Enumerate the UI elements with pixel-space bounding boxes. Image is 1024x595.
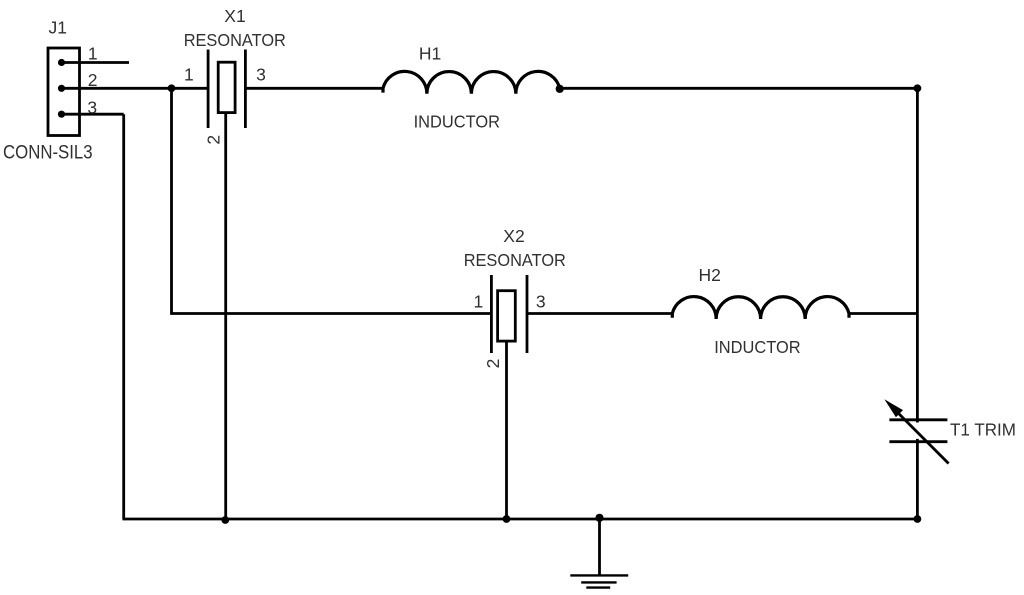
wire X1 pin3 to H1 — [245, 87, 383, 90]
resonator X2 left plate — [490, 275, 493, 353]
svg-text:2: 2 — [203, 135, 223, 145]
svg-text:3: 3 — [256, 65, 266, 85]
svg-text:1: 1 — [184, 65, 194, 85]
wire right trunk upper — [916, 87, 919, 422]
ground bar 3 — [586, 586, 610, 588]
junction node ground on bus — [595, 514, 603, 522]
svg-text:INDUCTOR: INDUCTOR — [714, 337, 800, 357]
inductor H2 — [672, 297, 849, 319]
svg-text:J1: J1 — [49, 17, 67, 37]
svg-text:3: 3 — [536, 291, 546, 311]
junction node X2 pin2 on bus — [503, 515, 511, 523]
svg-text:INDUCTOR: INDUCTOR — [414, 111, 500, 131]
resonator X2 right plate — [526, 275, 529, 353]
ground bar 1 — [570, 574, 628, 576]
wire H2 to right trunk — [849, 312, 917, 315]
svg-text:CONN-SIL3: CONN-SIL3 — [3, 142, 93, 163]
wire X2 pin2 drop — [505, 341, 508, 519]
svg-text:RESONATOR: RESONATOR — [184, 30, 286, 50]
trimmer capacitor T1 bottom plate — [889, 440, 947, 443]
svg-text:2: 2 — [88, 70, 98, 90]
wire J1 pin 3 horizontal — [62, 113, 124, 116]
junction node X1 pin2 on bus — [221, 516, 229, 524]
wire H1 to top-right corner — [560, 87, 918, 90]
svg-text:X2: X2 — [503, 226, 524, 246]
ground bar 2 — [581, 581, 616, 583]
resonator X1 crystal body — [218, 62, 235, 112]
J1 pin 3 contact dot — [58, 111, 65, 118]
wire X1 pin2 drop — [224, 113, 227, 519]
wire ground stem — [598, 519, 601, 575]
wire right trunk lower — [916, 439, 919, 519]
svg-text:RESONATOR: RESONATOR — [464, 250, 566, 270]
svg-text:T1 TRIM: T1 TRIM — [950, 419, 1016, 439]
wire node drop to row 2 — [172, 88, 492, 313]
wire J1 pin 1 stub — [62, 61, 130, 64]
junction node top-right corner — [914, 84, 922, 92]
wire J1 pin 2 to node — [62, 87, 208, 90]
wire X2 pin3 to H2 — [527, 312, 672, 315]
resonator X1 left plate — [207, 50, 210, 129]
inductor H1 — [383, 71, 560, 93]
junction node at J1 pin2 branch — [168, 84, 176, 92]
trimmer T1 arrowhead — [884, 399, 903, 417]
junction node at H1 right end — [556, 85, 564, 93]
svg-text:2: 2 — [483, 359, 503, 369]
resonator X1 right plate — [244, 50, 247, 129]
resonator X2 crystal body — [498, 291, 516, 341]
svg-text:H1: H1 — [419, 43, 441, 63]
svg-text:1: 1 — [474, 291, 484, 311]
svg-text:H2: H2 — [699, 265, 721, 285]
J1 pin 2 contact dot — [58, 85, 65, 92]
junction node bottom-right corner — [914, 515, 922, 523]
trimmer capacitor T1 arrow shaft — [890, 405, 949, 464]
wire left vertical drop — [122, 114, 125, 519]
svg-text:3: 3 — [87, 98, 97, 118]
J1 pin 1 contact dot — [58, 59, 65, 66]
svg-text:1: 1 — [88, 44, 98, 64]
wire bottom ground bus — [122, 518, 917, 521]
trimmer capacitor T1 top plate — [889, 418, 947, 421]
svg-text:X1: X1 — [224, 6, 245, 26]
connector J1 body — [48, 48, 80, 136]
